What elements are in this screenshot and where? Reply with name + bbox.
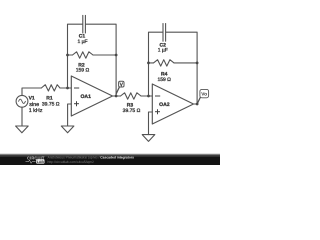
- probe V lead: [116, 87, 119, 94]
- svg-text:OA2: OA2: [159, 102, 170, 108]
- svg-text:http://circuitlab.com/c4vu58qm: http://circuitlab.com/c4vu58qm2: [48, 160, 95, 164]
- logo squiggle: [26, 160, 36, 163]
- wire C1 right to top corner: [86, 24, 116, 96]
- node R2 right: [115, 54, 118, 57]
- wire OA1 plus input to ground: [68, 104, 72, 126]
- resistor R1: [41, 85, 60, 91]
- wire feedback left vertical stage2: [149, 32, 163, 96]
- svg-text:OA1: OA1: [80, 94, 91, 100]
- svg-text:39.75 Ω: 39.75 Ω: [42, 102, 60, 108]
- OA2 minus sign: [155, 95, 160, 97]
- ground OA2: [142, 135, 155, 142]
- node R2 left: [66, 54, 69, 57]
- node OA1 output: [115, 95, 118, 98]
- wire R2 right lead: [93, 54, 116, 56]
- op-amp OA1: [71, 76, 112, 116]
- svg-text:sine: sine: [29, 102, 39, 108]
- node OA2 minus input: [147, 95, 150, 98]
- svg-text:Vo: Vo: [201, 92, 207, 98]
- svg-text:1 kHz: 1 kHz: [29, 108, 43, 114]
- logo LAB box: [36, 159, 44, 163]
- wire C2 right to top corner: [166, 32, 197, 104]
- svg-text:159 Ω: 159 Ω: [157, 77, 171, 83]
- svg-text:V1: V1: [29, 96, 35, 102]
- probe Vo lead: [197, 98, 200, 104]
- wire OA1 output: [113, 95, 121, 97]
- svg-text:Aristotelous Pneumatikakis (ap: Aristotelous Pneumatikakis (apne) / Casc…: [48, 155, 135, 159]
- probe V box: [119, 81, 124, 87]
- capacitor C1: [83, 15, 86, 33]
- OA2 plus sign: [155, 111, 160, 113]
- wire R4 left lead: [149, 62, 154, 64]
- resistor R3: [121, 93, 142, 99]
- wire V1 bottom to ground: [21, 107, 23, 126]
- V1 sine glyph: [19, 99, 26, 103]
- OA1 plus sign: [74, 103, 79, 105]
- wire R4 right lead: [174, 62, 197, 64]
- wire V1 top to R1: [22, 88, 41, 95]
- capacitor C2: [163, 24, 166, 42]
- OA1 minus sign: [74, 87, 79, 89]
- svg-text:1 µF: 1 µF: [158, 48, 168, 54]
- wire R2 left lead: [68, 54, 73, 56]
- svg-text:39.75 Ω: 39.75 Ω: [123, 108, 141, 114]
- node OA1 minus input: [66, 87, 69, 90]
- node R4 right: [196, 62, 199, 65]
- node R4 left: [147, 62, 150, 65]
- svg-text:159 Ω: 159 Ω: [76, 68, 90, 74]
- wire R3 to OA2 minus input: [141, 95, 152, 97]
- labels: [29, 34, 172, 115]
- watermark bar: [0, 153, 220, 165]
- resistor R2: [73, 52, 94, 58]
- wire OA2 output: [194, 103, 198, 105]
- node OA2 output: [196, 103, 199, 106]
- voltage source V1: [16, 95, 28, 107]
- probe Vo box: [200, 89, 209, 97]
- wire OA2 plus input to ground: [149, 112, 153, 135]
- wire feedback left vertical stage1: [68, 24, 83, 88]
- ground OA1: [61, 126, 74, 133]
- wire R1 to minus node: [60, 87, 71, 89]
- op-amp input signs: [74, 88, 160, 114]
- svg-text:1 µF: 1 µF: [77, 39, 87, 45]
- junction dots: [66, 54, 198, 106]
- svg-text:LAB: LAB: [37, 160, 45, 164]
- ground V1: [16, 126, 29, 133]
- resistor R4: [154, 60, 175, 66]
- op-amp OA2: [152, 84, 193, 124]
